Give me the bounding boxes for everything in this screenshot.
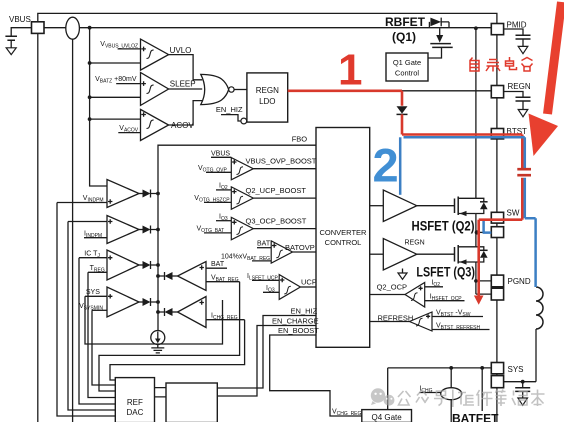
svg-text:EN_HIZ: EN_HIZ (216, 105, 243, 114)
arrow red annotation big (548, 2, 562, 114)
gate NOR U-sleep (201, 74, 229, 104)
svg-text:Q2_OCP: Q2_OCP (377, 283, 407, 292)
current sensor ellipse IBUS (66, 17, 80, 39)
wire PMID to cap (504, 29, 523, 35)
node SW internal (475, 230, 479, 234)
svg-text:UVLO: UVLO (170, 46, 192, 55)
block Q4 Gate (362, 410, 412, 422)
svg-text:LDO: LDO (259, 97, 275, 106)
wire REGN LDO output to REGN pin (288, 90, 492, 92)
wire top rail VBUS to PMID and right pin-column line (38, 13, 497, 422)
wire ref V_BAT_REG down (99, 282, 240, 391)
svg-text:VBUS: VBUS (9, 15, 31, 24)
svg-text:VBUS_OVP_BOOST: VBUS_OVP_BOOST (246, 157, 317, 166)
wire ICHG sense branch (450, 368, 452, 388)
comparator UCP (279, 275, 300, 300)
svg-text:BATOVP: BATOVP (285, 243, 315, 252)
node bus SLEEP (88, 95, 92, 99)
svg-text:REGN: REGN (256, 86, 279, 95)
svg-text:VBUS: VBUS (211, 151, 230, 158)
diode amp ICHG output (173, 311, 178, 313)
wire PMID to HSFET drain (475, 28, 477, 198)
transistor LSFET Q3 (455, 245, 459, 264)
wire REGN to cap (504, 92, 523, 98)
current source bias (151, 331, 165, 345)
svg-text:REGN: REGN (508, 82, 531, 91)
ground SYS arrow (518, 398, 528, 405)
diode HSFET body (476, 198, 484, 213)
capacitor SYS (522, 382, 524, 388)
wire VBUS bus down to amp V_INDPM (90, 28, 107, 186)
diode LSFET body (476, 247, 484, 262)
svg-text:RBFET: RBFET (385, 15, 426, 29)
inductor L1 (536, 287, 543, 329)
svg-text:BAT: BAT (257, 241, 271, 248)
wire red path1 REGN to BTST (288, 91, 402, 106)
pin PMID (491, 24, 503, 35)
svg-text:Control: Control (395, 69, 420, 78)
wire ref TREG-top to REF DAC (79, 258, 115, 404)
svg-text:Q2_UCP_BOOST: Q2_UCP_BOOST (246, 186, 307, 195)
wire LSFET source to PGND pins (476, 281, 491, 294)
svg-text:REF: REF (127, 398, 143, 407)
capacitor bootstrap (red) (517, 169, 531, 175)
node PMID junction (474, 26, 478, 30)
wire ACOV output to NOR (169, 101, 203, 125)
comparator UVLO (141, 39, 169, 70)
wire BATFET branch (481, 368, 483, 411)
amp BAT V_BAT_REG (points left) (178, 262, 207, 291)
ground VBUS (10, 40, 12, 48)
svg-text:BATFET: BATFET (452, 412, 499, 422)
comparator ACOV (141, 109, 169, 140)
ground LSFET driver arrow (402, 269, 404, 274)
wire SLEEP output to NOR (169, 88, 203, 90)
svg-text:EN_CHARGE: EN_CHARGE (272, 317, 319, 326)
amp V_INDPM (107, 180, 139, 208)
wire REF DAC to register (155, 388, 167, 397)
block Q1 Gate Control (386, 53, 428, 81)
svg-text:SYS: SYS (508, 365, 524, 374)
pin SW (lower) (491, 227, 503, 238)
arrow red path1 end (474, 296, 484, 305)
ground REGN arrow (518, 110, 528, 117)
wire SYS rail internal (388, 368, 492, 410)
node bus ACOV (88, 117, 92, 121)
amp TREG (107, 250, 139, 280)
wire ref I_CHG_REG down (110, 320, 245, 380)
comparator Q3_OCP_BOOST (231, 217, 253, 239)
wire ellipse sense down (72, 39, 74, 422)
svg-text:PGND: PGND (508, 277, 531, 286)
pin PGND (upper) (491, 275, 503, 287)
wire ref I_INDPM-top to REF DAC (68, 222, 115, 411)
svg-text:EN_BOOST: EN_BOOST (278, 326, 319, 335)
ground PMID arrow (518, 46, 528, 53)
pin SW (upper) (491, 212, 503, 223)
capacitor VBUS input (5, 36, 17, 40)
block register (166, 383, 217, 422)
pin REGN (491, 86, 503, 98)
pin SYS (lower) (491, 376, 503, 388)
wire blue path2 along BTST (404, 137, 525, 168)
wire UVLO output to NOR (169, 55, 203, 80)
driver HSFET gate driver (370, 205, 384, 207)
comparator VBUS_OVP_BOOST (231, 158, 253, 180)
capacitor REGN (516, 97, 531, 101)
wire blue path2 BTST to HS driver (399, 137, 402, 195)
wire SYS to inductor and cap (504, 381, 536, 383)
svg-text:SW: SW (507, 209, 520, 218)
svg-text:CONVERTER: CONVERTER (320, 228, 368, 237)
svg-text:REGN: REGN (405, 240, 425, 247)
diode amp V_INDPM output (139, 193, 143, 195)
wire ref V_SYSMIN to REF DAC (92, 310, 115, 385)
svg-text:HSFET (Q2): HSFET (Q2) (412, 219, 475, 234)
svg-text:(Q1): (Q1) (392, 30, 416, 44)
diode bootstrap D1 (397, 106, 408, 113)
wire VBUS to input cap (11, 28, 31, 37)
svg-text:UCP: UCP (301, 278, 317, 287)
node bus UVLO (88, 61, 92, 65)
comparator SLEEP (141, 73, 169, 106)
svg-text:2: 2 (373, 139, 399, 192)
comparator Q2_UCP_BOOST (231, 187, 253, 209)
diode amp TREG output (139, 264, 143, 266)
amp ICHG_REG (points left) (178, 297, 207, 328)
svg-text:DAC: DAC (126, 408, 143, 417)
svg-text:Q3_OCP_BOOST: Q3_OCP_BOOST (246, 217, 307, 226)
wire ref V_INDPM to REF DAC (57, 203, 115, 417)
wire ref TREG to REF DAC (88, 272, 115, 397)
wire SW node to pin (476, 231, 491, 233)
capacitor PMID (516, 35, 531, 39)
diode amp BAT output (173, 275, 178, 277)
comparator BATOVP (271, 241, 292, 263)
diode amp I_INDPM output (139, 229, 143, 231)
svg-text:PMID: PMID (507, 21, 527, 30)
watermark logo (371, 388, 395, 405)
pin VBUS (32, 22, 45, 34)
wire blue path2 SW pin jog (483, 221, 492, 233)
watermark text "gongzhonghao yingjianbijiben" (398, 390, 545, 408)
amp I_INDPM (107, 216, 139, 244)
wire NOR out to REGN LDO (234, 89, 247, 91)
svg-text:EN_HIZ: EN_HIZ (291, 307, 318, 316)
wire red path1 cap to SW (479, 178, 523, 296)
ground current source (151, 345, 164, 353)
svg-text:FBO: FBO (292, 135, 308, 144)
pin BTST (491, 129, 503, 139)
label bootstrap-capacitor chinese (red) (470, 57, 533, 72)
svg-text:Q4 Gate: Q4 Gate (371, 413, 402, 422)
wire ref SYS loop (85, 296, 223, 344)
wire left frame from VBUS pin down (37, 33, 39, 422)
svg-text:BAT: BAT (211, 261, 225, 268)
wire blue path2 cap to SW to inductor (525, 178, 536, 287)
amp SYSMIN (107, 287, 139, 317)
svg-text:LSFET (Q3): LSFET (Q3) (416, 265, 475, 280)
svg-text:CONTROL: CONTROL (325, 238, 362, 247)
svg-text:Q1 Gate: Q1 Gate (393, 58, 421, 67)
driver LSFET gate driver (370, 253, 384, 255)
wire red path1 diode to BTST cap (402, 114, 522, 168)
block REGN LDO (247, 73, 288, 122)
svg-text:1: 1 (338, 46, 362, 95)
svg-text:SLEEP: SLEEP (170, 80, 196, 89)
wire VBUS sense rail (44, 27, 491, 29)
block CONVERTER CONTROL (316, 128, 370, 348)
diode amp SYSMIN output (139, 301, 143, 303)
block REF DAC (115, 378, 154, 422)
pin PGND (lower) (491, 288, 503, 300)
transistor HSFET Q2 (455, 197, 459, 216)
current sensor ellipse ICHG (441, 388, 462, 400)
pin SYS (upper) (491, 363, 503, 374)
node VBUS junction (88, 26, 92, 30)
